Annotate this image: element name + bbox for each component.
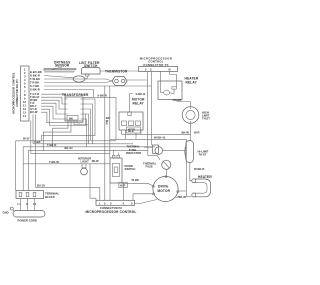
svg-text:RELAY: RELAY [186, 81, 198, 85]
svg-text:13: 13 [23, 111, 27, 115]
svg-text:BK-W: BK-W [179, 195, 187, 199]
svg-text:11: 11 [23, 104, 26, 108]
door switch pin wires [113, 150, 115, 156]
thermal fuse indicator body [152, 145, 158, 153]
motor relay sub box [127, 127, 141, 133]
svg-text:FUSE: FUSE [146, 165, 154, 169]
wire W-BK-41 row [110, 138, 187, 140]
heater element [195, 179, 211, 197]
svg-text:S-Y-BK: S-Y-BK [30, 84, 39, 88]
svg-text:POWER CORD: POWER CORD [18, 219, 37, 223]
thermistor contact left [115, 79, 119, 83]
wire motor to P2 [135, 200, 158, 204]
heater relay box [158, 81, 182, 100]
thermal fuse label [143, 161, 157, 168]
wire BK-W row [122, 133, 191, 135]
svg-text:BK-W: BK-W [182, 130, 190, 134]
heater terminal top [192, 179, 196, 183]
svg-text:BU-35: BU-35 [37, 184, 45, 188]
svg-text:W-R: W-R [194, 131, 199, 135]
thermistor contact right [121, 79, 125, 83]
drive motor [153, 176, 178, 201]
transformer box [65, 97, 83, 121]
thermal fuse circle [162, 160, 171, 169]
wire group P1 top to sensors [44, 71, 74, 73]
BK-R label [119, 183, 128, 188]
svg-text:BK-34: BK-34 [65, 146, 73, 150]
svg-text:TH'ST: TH'ST [199, 153, 207, 157]
motor relay contacts [122, 121, 127, 126]
dryness sensor label [54, 61, 70, 68]
interior light bulb [82, 164, 86, 168]
wires down to connector P2 [99, 187, 101, 200]
wire circle to oval [190, 123, 192, 140]
wire oval to switch tab [85, 76, 87, 79]
svg-text:T-W-BK: T-W-BK [30, 77, 40, 81]
svg-text:T-R-BK: T-R-BK [30, 81, 39, 85]
hi-limit label [202, 111, 210, 121]
door switch pins [112, 155, 115, 158]
svg-text:S-BK-R: S-BK-R [136, 92, 146, 96]
motor relay bottom wires [121, 130, 123, 134]
connector P4 box [139, 67, 178, 72]
door switch box [110, 158, 122, 183]
connector P1 pins [23, 68, 27, 119]
svg-text:INDICATOR: INDICATOR [126, 151, 141, 155]
lint filter switch body [82, 68, 101, 75]
svg-text:R: R [106, 122, 108, 126]
wires from P4 down [147, 72, 149, 148]
dryness sensor plug oval [73, 76, 85, 82]
door switch inner [113, 164, 120, 177]
connector P1 box [21, 66, 30, 121]
cycling thermostat oval [186, 141, 194, 163]
heater relay label [185, 77, 199, 85]
microprocessor control connector P4 label [140, 57, 172, 67]
bus wires [16, 141, 116, 191]
terminal block label [45, 192, 60, 199]
motor left wires [122, 183, 153, 185]
svg-text:12: 12 [23, 107, 27, 111]
heater terminal bottom [192, 193, 196, 197]
motor relay top pin wire [130, 94, 134, 113]
svg-text:H-BK-R: H-BK-R [30, 74, 40, 78]
motor right wires [178, 190, 186, 192]
lint filter switch label [79, 61, 100, 68]
interior light label [78, 156, 91, 163]
transformer inner block BK [67, 116, 78, 121]
svg-text:RELAY: RELAY [133, 102, 145, 106]
svg-text:LIGHT: LIGHT [81, 160, 90, 164]
cycling thermostat label [198, 149, 209, 156]
svg-text:S-BK-R: S-BK-R [30, 88, 40, 92]
loop wire to door switch [31, 152, 110, 154]
indicator wires [144, 146, 152, 148]
wire lint switch to P4 [100, 70, 139, 72]
heater relay coil [164, 90, 170, 95]
wires block to cord [20, 199, 22, 211]
svg-text:MOTOR: MOTOR [158, 189, 171, 193]
wire labels P1 bottom group [30, 92, 39, 114]
microprocessor control P1 rotated label [12, 72, 20, 114]
svg-text:9-BK-R: 9-BK-R [98, 93, 107, 97]
wires P1 bottom group to transformer [41, 94, 65, 99]
svg-text:T-BK-W: T-BK-W [49, 160, 59, 164]
vertical wire mid with labels [104, 86, 106, 164]
svg-text:N: N [169, 68, 171, 72]
svg-text:H-BU-BK: H-BU-BK [30, 70, 42, 74]
bus labels [23, 136, 73, 150]
svg-text:Y-BK: Y-BK [34, 140, 41, 144]
svg-text:BU-W: BU-W [30, 110, 38, 114]
svg-text:HI-P: HI-P [120, 183, 126, 187]
motor relay box [119, 112, 143, 130]
transformer right wires [41, 99, 95, 141]
motor relay label [132, 98, 145, 106]
svg-text:3B-W: 3B-W [92, 159, 99, 163]
svg-text:TRANSFORMER: TRANSFORMER [62, 93, 89, 97]
svg-text:W-BK-41: W-BK-41 [154, 135, 166, 139]
heater relay contact [172, 87, 177, 89]
vertical heater feed [185, 139, 187, 197]
svg-text:T-BK-R: T-BK-R [47, 143, 56, 147]
svg-text:L2: L2 [33, 202, 37, 206]
svg-text:RELAY: RELAY [128, 130, 135, 133]
hi-limit thermostat circle [182, 107, 199, 124]
svg-text:14: 14 [23, 114, 27, 118]
power cord [13, 211, 45, 218]
wire thermistor right to P4 [127, 79, 148, 81]
svg-text:10: 10 [23, 100, 27, 104]
door switch label [125, 164, 136, 171]
svg-text:MICROPROCESSOR CONTROL: MICROPROCESSOR CONTROL [12, 72, 16, 114]
wire fuse to motor [165, 169, 167, 176]
L1 N L2 labels [18, 202, 37, 206]
terminal block [16, 191, 44, 199]
wire labels P1 top group [30, 70, 42, 92]
svg-text:MICROPROCESSOR CONTROL: MICROPROCESSOR CONTROL [86, 210, 137, 214]
svg-text:THERMISTOR: THERMISTOR [105, 70, 128, 74]
svg-text:BK: BK [69, 116, 73, 120]
transformer bottom wires [52, 121, 68, 147]
svg-text:SWITCH: SWITCH [125, 167, 136, 171]
svg-text:CONNECTOR NO. P1: CONNECTOR NO. P1 [15, 79, 19, 107]
verticals from P1 label column down to buses [32, 115, 34, 144]
dryness sensor bars [44, 68, 76, 71]
svg-text:TH'ST: TH'ST [202, 117, 210, 121]
svg-text:SENSOR: SENSOR [55, 64, 70, 68]
thermistor body [112, 77, 127, 86]
lint filter switch tab [86, 74, 90, 76]
connector P2 box [96, 200, 135, 205]
svg-text:BLOCK: BLOCK [45, 195, 55, 199]
thermal fuse indicator label [126, 145, 141, 155]
svg-text:W-37: W-37 [23, 136, 30, 140]
interior light wire [23, 163, 110, 165]
wire oval to heater [190, 163, 192, 181]
svg-text:W-BK: W-BK [132, 178, 139, 182]
svg-text:HEATER: HEATER [198, 175, 212, 179]
svg-text:GND: GND [3, 210, 9, 214]
svg-text:W-BK-R: W-BK-R [194, 167, 204, 171]
vertical wire to door switch [109, 86, 111, 158]
dryness sensor pointer [52, 67, 62, 70]
